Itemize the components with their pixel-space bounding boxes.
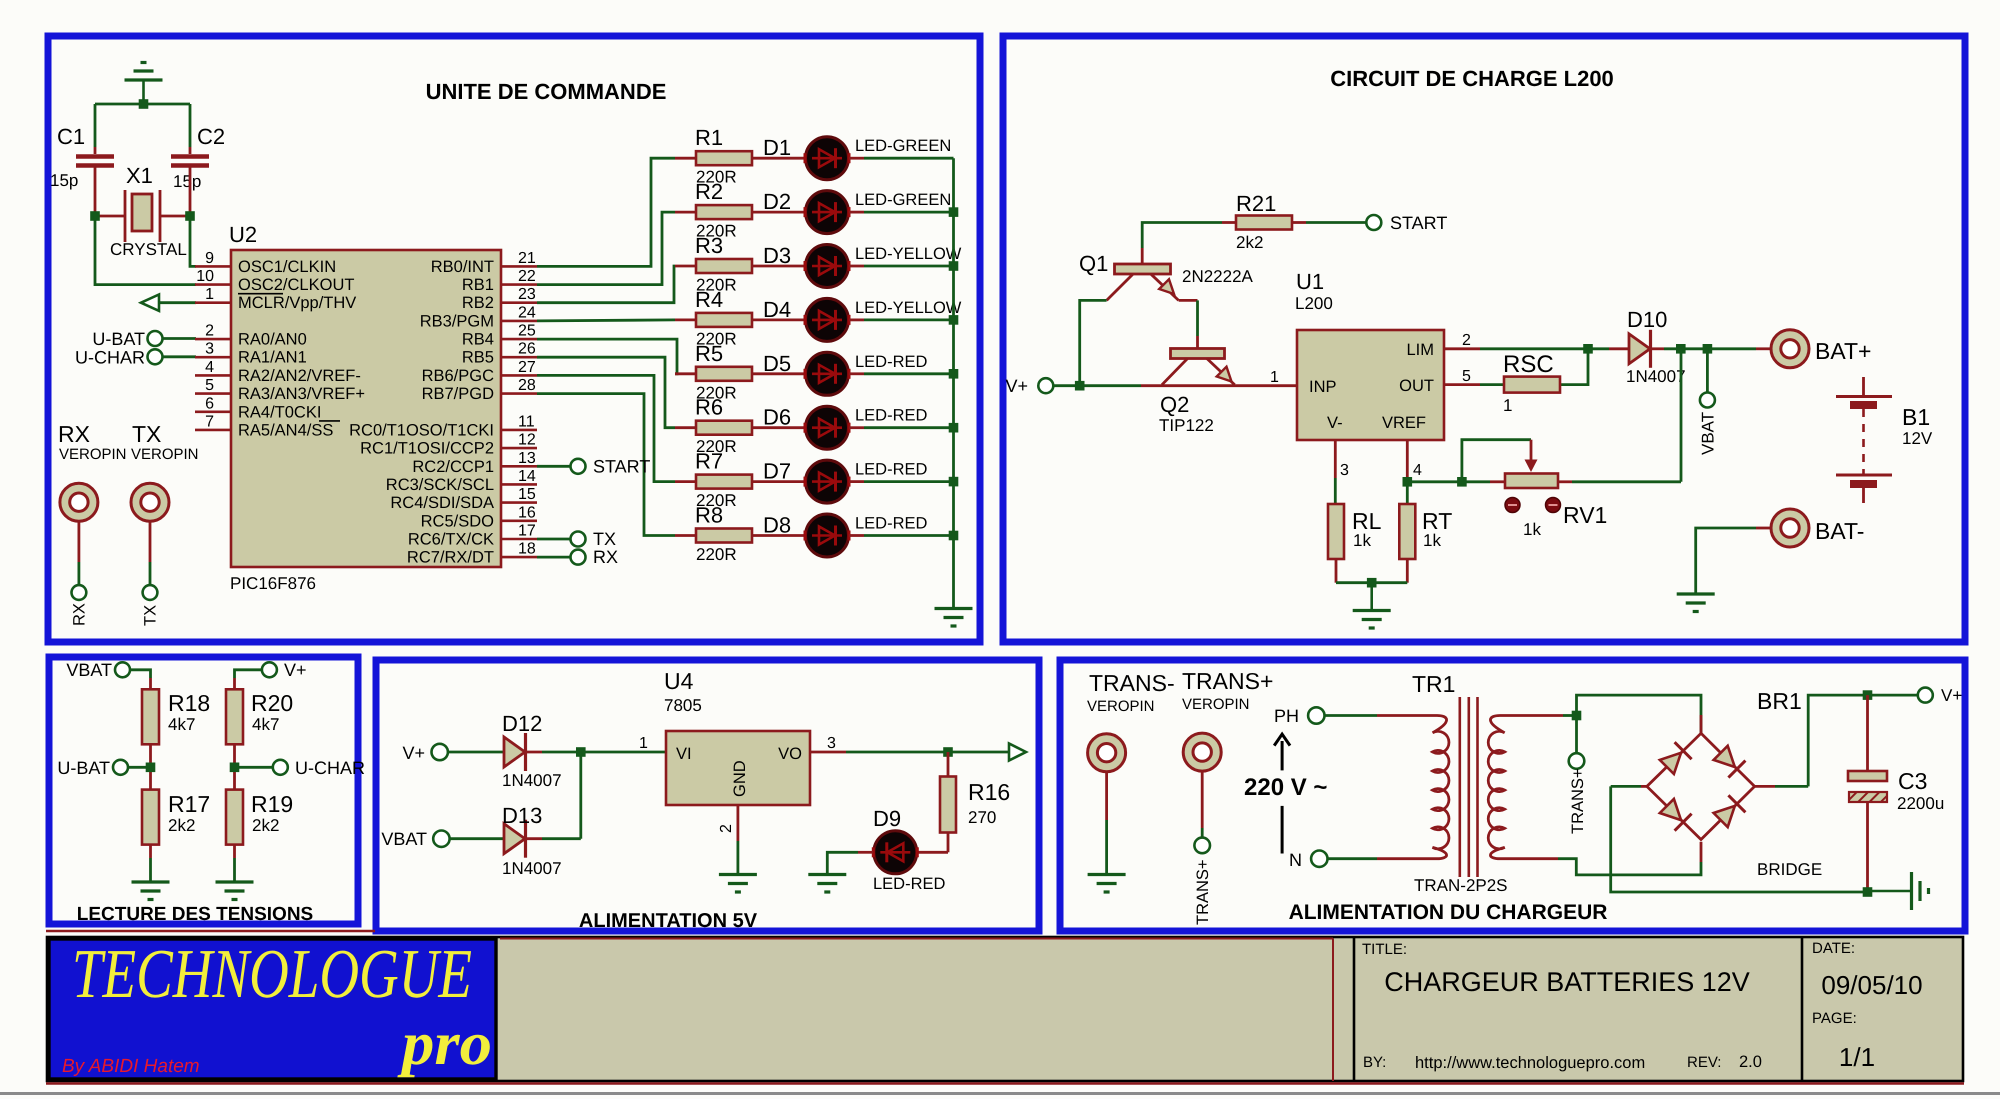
resistor R16 270 [947, 752, 950, 776]
junction V+ / Q1 collector [1075, 381, 1085, 391]
svg-text:LED-RED: LED-RED [873, 875, 946, 893]
wire VBAT to R18 [130, 670, 151, 678]
svg-text:4: 4 [205, 359, 214, 376]
titleblock red accents [500, 938, 1333, 940]
svg-text:1: 1 [205, 286, 214, 303]
diode D12 1N4007 [504, 737, 525, 767]
svg-text:RC6/TX/CK: RC6/TX/CK [408, 531, 494, 549]
resistor R5 [675, 372, 696, 375]
svg-text:REV:: REV: [1687, 1054, 1721, 1071]
wire V+ to R20 [235, 670, 263, 678]
svg-text:U2: U2 [229, 222, 257, 247]
wire RT top [1406, 482, 1409, 504]
pin 2 RA0/AN0 [195, 338, 231, 341]
wire R1 to D1 [752, 157, 805, 160]
svg-text:5: 5 [1462, 368, 1471, 385]
resistor R21 [1236, 216, 1292, 230]
microcontroller U2 PIC16F876 [231, 250, 501, 567]
svg-text:U-CHAR: U-CHAR [75, 348, 145, 368]
svg-text:1: 1 [1270, 369, 1279, 386]
svg-text:PH: PH [1274, 706, 1299, 726]
svg-text:U-BAT: U-BAT [92, 329, 145, 349]
svg-text:LED-RED: LED-RED [855, 407, 928, 425]
wire D5 to bus [849, 372, 864, 375]
svg-text:RA0/AN0: RA0/AN0 [238, 331, 307, 349]
LED D5 [806, 352, 849, 395]
svg-text:220R: 220R [696, 545, 737, 564]
svg-text:15p: 15p [50, 171, 78, 190]
wire D6 to bus [849, 426, 864, 429]
svg-text:2k2: 2k2 [168, 816, 195, 835]
svg-text:X1: X1 [126, 163, 153, 188]
svg-text:RA3/AN3/VREF+: RA3/AN3/VREF+ [238, 385, 365, 403]
svg-text:C1: C1 [57, 124, 85, 149]
svg-text:R21: R21 [1236, 191, 1276, 216]
svg-text:D1: D1 [763, 135, 791, 160]
ground (crystal top) [142, 80, 145, 104]
frame box ALIMENTATION DU CHARGEUR [1060, 660, 1965, 931]
svg-text:D9: D9 [873, 806, 901, 831]
terminal RX (box1) [537, 556, 571, 559]
pin 9 OSC1/CLKIN [195, 265, 231, 268]
svg-text:LED-GREEN: LED-GREEN [855, 137, 951, 155]
wire RL RT bottoms [1335, 559, 1338, 583]
wire RB3 to R4 [537, 320, 675, 321]
wire TX veropin lead [149, 521, 152, 562]
pin 17 RC6/TX/CK [501, 538, 537, 541]
svg-text:By ABIDI Hatem: By ABIDI Hatem [62, 1056, 200, 1077]
svg-text:VEROPIN: VEROPIN [1182, 696, 1250, 713]
wire U-CHAR to RA1 [163, 355, 197, 358]
svg-text:CRYSTAL: CRYSTAL [110, 240, 187, 259]
svg-text:R5: R5 [695, 341, 723, 366]
wire R5 to D5 [752, 372, 805, 375]
svg-text:OSC2/CLKOUT: OSC2/CLKOUT [238, 276, 354, 294]
svg-text:LED-RED: LED-RED [855, 353, 928, 371]
wire PH to primary [1325, 714, 1378, 717]
svg-text:CHARGEUR BATTERIES 12V: CHARGEUR BATTERIES 12V [1384, 967, 1750, 997]
svg-text:LED-RED: LED-RED [855, 515, 928, 533]
svg-text:BAT-: BAT- [1815, 518, 1864, 544]
svg-text:10: 10 [196, 268, 214, 285]
wire OSC1 net [190, 216, 196, 266]
resistor R17 2k2 [142, 790, 159, 845]
ground (BAT-) [1677, 592, 1715, 595]
svg-text:R3: R3 [695, 233, 723, 258]
wire RB0 to R1 [537, 158, 675, 266]
potentiometer RV1 1k [1530, 440, 1533, 461]
wire V+ rail to INP [1053, 384, 1141, 387]
svg-text:9: 9 [205, 250, 214, 267]
wire C2 bottom lead [189, 167, 192, 216]
svg-text:15p: 15p [173, 172, 201, 191]
terminal U-CHAR [148, 349, 163, 364]
resistor R19 2k2 [226, 790, 243, 845]
pin 23 RB2 [501, 301, 537, 304]
wire D3 to bus [849, 265, 864, 268]
wire U-BAT tap [128, 766, 151, 769]
wire D12 to junction [526, 751, 543, 754]
pin 14 RC3/SCK/SCL [501, 483, 537, 486]
svg-text:RA4/T0CKI: RA4/T0CKI [238, 403, 321, 421]
svg-text:15: 15 [518, 486, 536, 503]
svg-text:D8: D8 [763, 513, 791, 538]
pin 1 MCLR/Vpp/THV [195, 301, 231, 304]
LED D4 [806, 298, 849, 341]
svg-text:VBAT: VBAT [66, 660, 112, 680]
svg-text:RC2/CCP1: RC2/CCP1 [412, 458, 494, 476]
wire TRANS+ lead [1201, 771, 1204, 828]
bridge diode top-left [1660, 753, 1681, 774]
wire secondary top [1500, 714, 1563, 717]
ground (box5 right, rotated) [1868, 890, 1912, 893]
junction bus row 3 [949, 261, 959, 271]
pin 3 RA1/AN1 [195, 356, 231, 359]
frame box CIRCUIT DE CHARGE L200 [1003, 36, 1965, 642]
veropin BAT+ [1771, 330, 1809, 368]
svg-text:VEROPIN: VEROPIN [59, 446, 127, 463]
sheet border red line [46, 930, 375, 933]
svg-text:D12: D12 [502, 711, 542, 736]
ground (D9) [808, 873, 846, 876]
svg-text:ALIMENTATION 5V: ALIMENTATION 5V [579, 910, 758, 932]
svg-text:U4: U4 [664, 668, 694, 694]
svg-text:VI: VI [676, 745, 692, 763]
svg-text:CIRCUIT DE CHARGE L200: CIRCUIT DE CHARGE L200 [1330, 66, 1614, 91]
svg-text:4k7: 4k7 [168, 715, 195, 734]
page bottom rule [0, 1092, 2000, 1095]
wire RB6 to R7 [537, 375, 675, 481]
terminal V+ (box2) [1038, 378, 1053, 393]
wire D8 to bus [849, 534, 864, 537]
svg-text:C3: C3 [1898, 768, 1927, 794]
wire R2 to D2 [752, 211, 805, 214]
svg-text:1N4007: 1N4007 [502, 771, 562, 790]
svg-text:3: 3 [827, 735, 836, 752]
svg-text:RB5: RB5 [462, 349, 494, 367]
wire U-BAT to RA0 [163, 337, 197, 340]
terminal START (box2) [1366, 215, 1381, 230]
svg-text:RC1/T1OSI/CCP2: RC1/T1OSI/CCP2 [360, 440, 494, 458]
pin 15 RC4/SDI/SDA [501, 501, 537, 504]
crystal X1 [95, 215, 125, 218]
resistor R3 [675, 265, 696, 268]
junction bus row 8 [949, 531, 959, 541]
label 220V tail [1281, 806, 1284, 854]
wire OSC2 net [95, 216, 196, 285]
svg-text:R7: R7 [695, 449, 723, 474]
svg-text:RB4: RB4 [462, 331, 494, 349]
terminal VBAT (box2) [1700, 393, 1715, 408]
LED D6 [806, 406, 849, 449]
wire U-CHAR tap [235, 766, 273, 769]
svg-text:V+: V+ [1941, 686, 1962, 705]
resistor R8 [675, 534, 696, 537]
svg-text:4k7: 4k7 [252, 715, 279, 734]
svg-text:D2: D2 [763, 189, 791, 214]
junction U-CHAR [230, 763, 240, 773]
wire RB1 to R2 [537, 212, 675, 285]
wire R17 to ground [149, 845, 152, 858]
pin 6 RA4/T0CKI [195, 410, 231, 413]
svg-text:26: 26 [518, 341, 536, 358]
svg-text:22: 22 [518, 268, 536, 285]
resistor R1 [675, 157, 696, 160]
terminal V+ (box5) [1918, 688, 1933, 703]
svg-text:D10: D10 [1627, 307, 1667, 332]
wire Q1 collector loop [1080, 300, 1107, 385]
svg-text:Q2: Q2 [1160, 392, 1189, 417]
svg-text:ALIMENTATION DU CHARGEUR: ALIMENTATION DU CHARGEUR [1289, 901, 1608, 924]
svg-text:2k2: 2k2 [252, 816, 279, 835]
transformer TR1 primary winding [1433, 716, 1449, 859]
transistor Q1 2N2222A [1115, 264, 1171, 274]
svg-text:U-BAT: U-BAT [57, 758, 110, 778]
terminal START (box1) [537, 465, 571, 468]
svg-text:R18: R18 [168, 690, 210, 716]
svg-text:2: 2 [1462, 332, 1471, 349]
svg-text:24: 24 [518, 304, 536, 321]
svg-text:V+: V+ [1005, 376, 1028, 396]
wire crystal top rail [95, 103, 190, 106]
junction bus row 6 [949, 423, 959, 433]
svg-text:RB3/PGM: RB3/PGM [420, 312, 494, 330]
svg-text:1N4007: 1N4007 [1626, 367, 1686, 386]
svg-text:RB2: RB2 [462, 294, 494, 312]
svg-text:BRIDGE: BRIDGE [1757, 860, 1822, 879]
pin 26 RB5 [501, 356, 537, 359]
resistor R20 4k7 [226, 689, 243, 744]
pin 12 RC1/T1OSI/CCP2 [501, 447, 537, 450]
junction crystal top [139, 99, 149, 109]
svg-text:TRANS+: TRANS+ [1182, 668, 1273, 694]
svg-text:VEROPIN: VEROPIN [131, 446, 199, 463]
svg-text:13: 13 [518, 450, 536, 467]
svg-text:VREF: VREF [1382, 414, 1426, 432]
svg-text:TRANS+: TRANS+ [1569, 768, 1587, 834]
wire R7 to D7 [752, 480, 805, 483]
LED D3 [806, 245, 849, 288]
svg-text:PAGE:: PAGE: [1812, 1010, 1857, 1027]
svg-text:VO: VO [778, 745, 802, 763]
resistor R18 4k7 [142, 689, 159, 744]
wire C2 top lead [189, 104, 192, 147]
svg-text:R6: R6 [695, 395, 723, 420]
svg-text:TECHNOLOGUE: TECHNOLOGUE [72, 936, 472, 1013]
frame box UNITE DE COMMANDE [48, 36, 980, 642]
svg-text:U-CHAR: U-CHAR [295, 758, 365, 778]
junction bus row 7 [949, 477, 959, 487]
svg-text:UNITE DE COMMANDE: UNITE DE COMMANDE [426, 79, 667, 104]
svg-text:11: 11 [518, 413, 535, 430]
capacitor C3 2200u [1866, 695, 1869, 771]
svg-text:270: 270 [968, 808, 996, 827]
wire RB5 to R6 [537, 357, 675, 428]
svg-text:21: 21 [518, 250, 536, 267]
wire R6 to D6 [752, 426, 805, 429]
pin 7 RA5/AN4/SS [195, 429, 231, 432]
veropin TX [131, 483, 169, 521]
svg-text:1: 1 [639, 735, 648, 752]
ground (U4) [719, 873, 757, 876]
wire TRANS+ drop [1575, 716, 1578, 754]
wire VBAT to D13 [450, 837, 504, 840]
MCLR reset arrow [160, 301, 196, 304]
svg-text:D6: D6 [763, 405, 791, 430]
bridge diode bottom-left [1660, 799, 1681, 820]
pin 27 RB6/PGC [501, 374, 537, 377]
svg-text:RSC: RSC [1503, 351, 1554, 378]
resistor R7 [675, 480, 696, 483]
junction VO R16 [943, 747, 953, 757]
junction wiper loop [1457, 477, 1467, 487]
svg-text:3: 3 [205, 341, 214, 358]
svg-text:RX: RX [71, 603, 89, 626]
wire D9 to ground [858, 851, 873, 854]
svg-text:7805: 7805 [664, 696, 702, 715]
svg-text:RC4/SDI/SDA: RC4/SDI/SDA [390, 494, 494, 512]
wire bridge minus to rail [1611, 785, 1641, 788]
wire C1 bottom lead [94, 167, 97, 216]
svg-text:PIC16F876: PIC16F876 [230, 574, 316, 593]
regulator U4 7805 [666, 731, 810, 805]
junction D12 D13 [576, 747, 586, 757]
resistor R6 [675, 426, 696, 429]
titleblock outer [47, 937, 1963, 1081]
svg-text:2.0: 2.0 [1739, 1053, 1762, 1071]
wire N to primary [1328, 857, 1378, 860]
svg-text:5: 5 [205, 377, 214, 394]
svg-text:12V: 12V [1902, 429, 1933, 448]
titleblock DATE section [1801, 937, 1804, 1081]
wire D13 to junction [526, 837, 543, 840]
junction bus row 5 [949, 369, 959, 379]
svg-text:L200: L200 [1295, 294, 1333, 313]
svg-text:25: 25 [518, 323, 536, 340]
bridge diode bottom-right [1714, 806, 1735, 827]
pin 16 RC5/SDO [501, 519, 537, 522]
ground (TRANS-) [1088, 873, 1126, 876]
svg-text:2: 2 [205, 323, 214, 340]
svg-text:LED-YELLOW: LED-YELLOW [855, 245, 962, 263]
svg-text:GND: GND [731, 760, 749, 797]
wire OUT pin 5 [1444, 383, 1480, 386]
wire R4 to D4 [752, 318, 805, 321]
svg-text:TRAN-2P2S: TRAN-2P2S [1414, 876, 1508, 895]
svg-text:N: N [1289, 850, 1302, 870]
svg-text:16: 16 [518, 504, 536, 521]
wire VREF pin 4 [1406, 440, 1409, 482]
junction U-BAT [146, 763, 156, 773]
svg-text:RC5/SDO: RC5/SDO [421, 512, 495, 530]
svg-text:1/1: 1/1 [1839, 1042, 1875, 1072]
terminal U-BAT (box3) [113, 760, 128, 775]
bridge diode top-right [1714, 746, 1735, 767]
wire RB4 to R5 [537, 339, 677, 374]
svg-text:27: 27 [518, 359, 536, 376]
wire RB7 to R8 [537, 394, 675, 536]
terminal V+ (box3) [262, 662, 277, 677]
svg-text:TX: TX [132, 421, 161, 447]
svg-text:OUT: OUT [1399, 377, 1434, 395]
svg-text:7: 7 [205, 413, 214, 430]
junction crystal right [185, 211, 195, 221]
svg-text:R19: R19 [251, 791, 293, 817]
svg-text:TX: TX [142, 605, 160, 626]
terminal TX bottom [143, 585, 158, 600]
svg-text:R20: R20 [251, 690, 293, 716]
svg-text:RC7/RX/DT: RC7/RX/DT [407, 549, 494, 567]
svg-text:LED-GREEN: LED-GREEN [855, 191, 951, 209]
regulator U1 L200 [1297, 330, 1444, 440]
svg-text:1k: 1k [1423, 531, 1441, 550]
wire V+ to D12 [448, 751, 504, 754]
capacitor C1 [76, 154, 114, 159]
LED D8 [806, 514, 849, 557]
wire D7 to bus [849, 480, 864, 483]
pin 5 RA3/AN3/VREF+ [195, 392, 231, 395]
pin 4 RA2/AN2/VREF- [195, 374, 231, 377]
svg-text:R16: R16 [968, 779, 1010, 805]
wire BAT- to ground [1756, 527, 1771, 530]
svg-text:R8: R8 [695, 503, 723, 528]
wire D1 to bus [849, 157, 864, 160]
svg-text:RX: RX [593, 547, 618, 567]
svg-text:D7: D7 [763, 459, 791, 484]
svg-text:B1: B1 [1902, 404, 1930, 430]
svg-text:RX: RX [58, 421, 90, 447]
pin 18 RC7/RX/DT [501, 556, 537, 559]
svg-text:TITLE:: TITLE: [1362, 941, 1407, 958]
wire RX veropin lead [78, 521, 81, 562]
terminal U-BAT [148, 331, 163, 346]
svg-text:V+: V+ [284, 660, 307, 680]
terminal TRANS+ (mid) [1569, 753, 1585, 769]
wire VO pin 3 [810, 751, 846, 754]
wire D4 to bus [849, 318, 864, 321]
svg-text:D13: D13 [502, 803, 542, 828]
frame box ALIMENTATION 5V [376, 660, 1039, 931]
svg-text:BY:: BY: [1363, 1054, 1386, 1071]
svg-text:28: 28 [518, 377, 536, 394]
svg-text:2: 2 [718, 824, 735, 833]
terminal VBAT (box4) [433, 831, 449, 847]
LED D9 [874, 831, 917, 874]
svg-text:R1: R1 [695, 125, 723, 150]
resistor RSC [1504, 377, 1560, 393]
junction C3 bottom [1863, 887, 1873, 897]
svg-text:D4: D4 [763, 297, 791, 322]
wire R21 to START [1292, 221, 1306, 224]
svg-text:RC0/T1OSO/T1CKI: RC0/T1OSO/T1CKI [349, 421, 494, 439]
wire wiper loop [1462, 440, 1531, 482]
ground (box1 LED bus) [935, 607, 973, 610]
svg-text:RA5/AN4/SS: RA5/AN4/SS [238, 421, 333, 439]
svg-text:MCLR/Vpp/THV: MCLR/Vpp/THV [238, 294, 356, 312]
svg-text:6: 6 [205, 395, 214, 412]
junction LIM / RSC [1583, 344, 1593, 354]
output arrow (box4) [1009, 744, 1026, 761]
svg-text:2200u: 2200u [1897, 794, 1944, 813]
terminal RX bottom [72, 585, 87, 600]
wire LIM pin 2 [1444, 347, 1480, 350]
svg-text:Q1: Q1 [1079, 251, 1108, 276]
veropin RX [60, 483, 98, 521]
svg-text:RA1/AN1: RA1/AN1 [238, 349, 307, 367]
svg-text:START: START [593, 456, 650, 476]
wire LED cathode bus [952, 158, 955, 608]
svg-text:VBAT: VBAT [381, 829, 427, 849]
